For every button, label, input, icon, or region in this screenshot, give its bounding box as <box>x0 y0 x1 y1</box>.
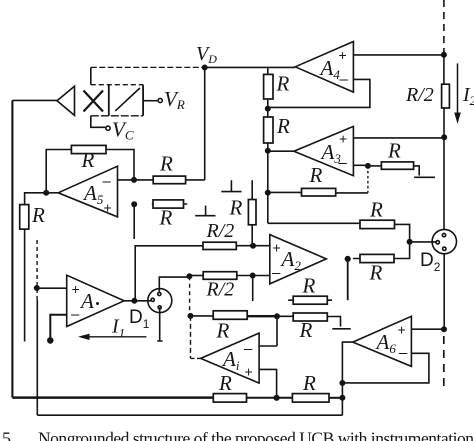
svg-text:I1: I1 <box>111 316 125 341</box>
wire top from block up <box>90 67 92 84</box>
wire R A7fb left <box>191 315 214 317</box>
svg-text:Ai: Ai <box>221 347 240 373</box>
svg-text:R: R <box>302 274 316 298</box>
svg-text:–: – <box>339 155 348 172</box>
resistor R stacked upper <box>293 296 327 304</box>
divider block bars <box>109 85 143 116</box>
node R toA7 left <box>188 314 192 318</box>
svg-text:+: + <box>104 200 112 216</box>
svg-text:+: + <box>398 322 406 338</box>
op-amp A1 <box>67 275 124 326</box>
resistor R bottom1 <box>213 394 246 403</box>
wire VD vertical <box>204 68 206 181</box>
wire A1 minus stub <box>50 315 66 338</box>
resistor R/2 vertical right <box>442 84 450 108</box>
svg-text:VC: VC <box>112 118 134 143</box>
svg-text:+: + <box>72 281 80 297</box>
wire stubs row below A5 <box>152 203 187 205</box>
resistor chain vertical R bottom <box>264 117 273 143</box>
wire right rail dashed top <box>443 0 445 55</box>
resistor R row below A5 <box>153 200 184 208</box>
wire A5 apex <box>46 192 58 194</box>
svg-text:A2: A2 <box>280 247 302 273</box>
wire top horizontal dashed part <box>91 66 205 68</box>
resistor R A5 input (from VD) <box>153 176 185 184</box>
svg-text:R/2: R/2 <box>206 279 235 301</box>
divider block top edge <box>91 84 143 86</box>
svg-text:R/2: R/2 <box>206 220 235 242</box>
op-amp A5 <box>58 166 117 217</box>
wire A3 plus to rail <box>353 137 444 139</box>
wire rail to R/2 <box>443 55 445 84</box>
node A1 minus end <box>48 338 53 343</box>
resistor R/2 row2 <box>203 272 237 280</box>
wire rail dashed bottom <box>443 336 445 392</box>
wire to VR terminal <box>143 100 158 102</box>
wire left return vertical dashed <box>36 240 38 301</box>
wire to ground resistor <box>368 165 382 167</box>
wire chain bottom to R <box>268 222 360 224</box>
wire A3 fb drop dotted <box>367 166 369 193</box>
wire chain segs <box>267 67 269 224</box>
resistor R/2 row1 <box>203 242 236 249</box>
svg-text:Nongrounded structure of the p: Nongrounded structure of the proposed UC… <box>38 429 474 441</box>
wire A4 plus to right rail <box>353 54 444 56</box>
resistor chain vertical R top <box>264 74 273 99</box>
node A6 rail <box>340 396 344 400</box>
node A1 out <box>132 299 136 303</box>
svg-text:+: + <box>273 240 281 256</box>
op-amp A2 <box>270 235 327 284</box>
node rail A3 junction <box>442 135 446 139</box>
node A1 plus <box>35 286 39 290</box>
svg-text:R: R <box>276 114 290 138</box>
op-amp A4 <box>295 42 353 93</box>
wire R to D2 node <box>395 224 410 241</box>
resistor R to ground (A3) <box>381 162 413 169</box>
node A7 plus rail <box>274 396 279 401</box>
wire A6 minus loop <box>342 353 429 383</box>
node chain A3fb <box>266 190 270 194</box>
svg-text:–: – <box>244 341 253 358</box>
wire R/2 row2 left <box>189 275 203 277</box>
wire VD to A4 apex <box>205 66 296 68</box>
svg-text:5.: 5. <box>2 429 16 441</box>
svg-text:–: – <box>272 265 281 282</box>
svg-text:D1: D1 <box>129 307 150 331</box>
wire A7 plus riser <box>259 369 277 397</box>
arrow I2 <box>457 63 459 119</box>
wire A1 plus <box>37 287 67 289</box>
node A5 out <box>44 191 48 195</box>
stub with node above A1 <box>133 205 135 239</box>
node rail A6 <box>442 327 446 331</box>
wire A7 apex <box>191 357 201 359</box>
wire rail below D2 <box>443 254 445 329</box>
op-amp A3 <box>294 126 354 175</box>
svg-text:+: + <box>245 364 253 380</box>
wire rail below R/2 <box>443 108 445 229</box>
wire R/2 row1 right to A2 <box>236 245 269 247</box>
svg-text:VD: VD <box>196 43 217 66</box>
node A5 minus <box>132 178 136 182</box>
resistor R left vertical <box>20 205 29 230</box>
wire stacked lower left <box>277 315 293 317</box>
svg-text:R: R <box>276 72 290 96</box>
wire A4 feedback <box>268 79 370 107</box>
wire A1 out <box>124 300 151 302</box>
resistor R stacked lower <box>293 313 327 321</box>
stub A2 out area <box>347 260 349 301</box>
wire bottom rail mid <box>247 397 293 399</box>
wire D1 top <box>159 277 189 292</box>
node R/2 row2 right <box>251 273 255 277</box>
ground symbol mid2 <box>195 206 215 216</box>
device D1 <box>148 289 172 313</box>
divider block bottom edge <box>91 115 143 117</box>
op-amp A6 <box>353 316 412 366</box>
wire A6 apex out <box>342 342 352 415</box>
divider slash <box>115 88 140 111</box>
resistor R to D2 upper <box>360 220 395 228</box>
resistor R A3 feedback <box>302 188 336 196</box>
wire node to D2 <box>410 241 436 243</box>
wire bottom long <box>37 414 342 416</box>
resistor R to D2 lower <box>360 254 394 262</box>
svg-text:R: R <box>369 198 383 222</box>
svg-text:R: R <box>309 163 323 187</box>
svg-text:VR: VR <box>164 87 185 112</box>
resistor R A7 fb <box>213 311 247 320</box>
wire R A5in right to VD vertical <box>186 179 205 181</box>
svg-text:–: – <box>103 173 112 190</box>
wire A3 fb horizontal <box>268 191 368 194</box>
wire R vmid stubs <box>251 180 253 245</box>
wire A3 apex to chain <box>268 150 294 152</box>
arrow I1 <box>82 336 146 338</box>
wire A5 out chain left <box>25 193 47 205</box>
wire stubs stacked upper <box>288 299 332 301</box>
node A3 minus <box>366 164 370 168</box>
wire bottom rail right <box>329 397 342 399</box>
wire left return vertical solid <box>36 300 38 415</box>
svg-text:R: R <box>81 148 95 172</box>
wire left rail <box>11 100 13 397</box>
svg-text:–: – <box>71 306 80 323</box>
node D2 left <box>407 240 411 244</box>
multiplier X symbol <box>84 91 104 112</box>
node A6 fb <box>340 381 344 385</box>
wire below left R <box>24 229 26 341</box>
svg-text:D2: D2 <box>420 250 441 274</box>
op-amp A7 <box>201 333 260 383</box>
wire A5 minus <box>118 179 154 181</box>
wire dashed vertical D1top-A7 <box>189 276 191 316</box>
svg-text:A5: A5 <box>82 181 104 207</box>
wire apex feed top-left <box>12 99 57 101</box>
stub below node <box>252 276 254 302</box>
svg-text:+: + <box>339 131 347 147</box>
wire A7 minus riser <box>259 316 277 346</box>
svg-text:R: R <box>159 206 173 230</box>
terminal VR circle <box>158 98 162 102</box>
svg-text:R: R <box>31 203 45 227</box>
node R/2 row1 <box>251 244 255 248</box>
node chain A4fb <box>266 106 270 110</box>
wire and ground bar A3 <box>414 166 435 177</box>
resistor R vertical mid <box>248 200 256 225</box>
wire VC drop <box>91 116 106 128</box>
node chain A3out <box>266 149 270 153</box>
wire A5 fb left down <box>46 150 71 193</box>
terminal VC circle <box>106 126 110 130</box>
node A7 minus riser <box>275 314 279 318</box>
device D2 <box>432 229 456 253</box>
svg-text:R: R <box>159 152 173 176</box>
wire R/2 row1 left corner down <box>135 246 203 301</box>
wire R/2 row2 right <box>237 275 270 277</box>
svg-text:R: R <box>369 261 383 285</box>
ground symbol mid1 <box>221 180 241 191</box>
svg-text:+: + <box>339 47 347 63</box>
resistor R A5 feedback <box>71 145 106 153</box>
wire lower R stubs <box>353 242 410 259</box>
svg-text:A: A <box>79 289 94 313</box>
resistor R bottom2 <box>292 394 329 403</box>
svg-text:–: – <box>340 71 349 88</box>
buffer triangle of multiplier block <box>57 86 75 115</box>
wire A5 fb up and left <box>106 150 134 180</box>
svg-text:–: – <box>399 345 408 362</box>
svg-text:I2: I2 <box>462 84 474 108</box>
svg-text:R/2: R/2 <box>405 84 434 106</box>
svg-text:R: R <box>216 319 230 343</box>
node R/2 row2 left <box>187 274 191 278</box>
wire D1 bottom <box>157 307 162 341</box>
svg-text:A4: A4 <box>319 56 341 82</box>
svg-text:R: R <box>229 196 243 220</box>
svg-text:A6: A6 <box>375 330 397 356</box>
svg-text:R: R <box>387 139 401 163</box>
node VD <box>203 65 207 69</box>
wire R A7fb right thick <box>247 315 277 317</box>
node A4 plus rail <box>442 53 446 57</box>
svg-text:R: R <box>299 318 313 342</box>
wire stacked lower right to ground <box>327 317 350 329</box>
wire A3 minus <box>353 164 368 166</box>
svg-text:R: R <box>302 371 316 395</box>
svg-text:R: R <box>218 371 232 395</box>
wire bottom thick rail <box>12 396 213 399</box>
wire A6 plus <box>411 328 444 330</box>
